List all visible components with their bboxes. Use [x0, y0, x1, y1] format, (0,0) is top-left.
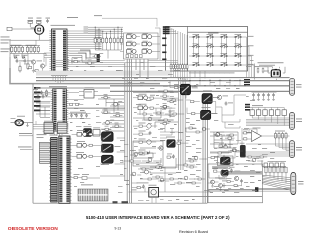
capacitor C41: [85, 60, 94, 65]
wire bundle U6 lower right: [69, 51, 90, 64]
resistor R50-a: [274, 132, 276, 140]
wire bus line 5: [36, 87, 110, 89]
transistor Q8: [147, 140, 151, 144]
capacitor C52: [160, 103, 169, 108]
gate U22a: [77, 132, 87, 136]
resistor R8: [35, 70, 38, 72]
wire thick bus down-left: [10, 68, 160, 84]
wire verticals right matrix to bus: [247, 37, 255, 78]
switch S3: [220, 34, 228, 38]
resistor RN1-c: [102, 37, 104, 45]
capacitor C42: [93, 53, 104, 58]
resistor R50-b: [278, 132, 280, 140]
resistor R102: [101, 109, 110, 114]
resistor group R50 label: [275, 130, 285, 133]
wire RP5 stems: [246, 108, 284, 126]
resistor R100: [234, 185, 237, 187]
resistor R14: [76, 104, 79, 106]
net stub labels: [84, 26, 89, 29]
net label box E: [162, 38, 166, 40]
wire horizontals U6-to-bus: [52, 61, 178, 67]
opto U14: [180, 81, 197, 95]
transistor Q10: [211, 180, 215, 184]
switch S1: [192, 34, 200, 38]
capacitor C40: [71, 58, 80, 63]
annotation smudges: [74, 58, 274, 191]
capacitor C56: [143, 169, 154, 174]
connector P4: [291, 172, 296, 194]
wire scatter links: [122, 91, 267, 183]
dark IC K3: [101, 155, 113, 165]
scattered parts: [130, 90, 263, 184]
capacitor C54: [160, 120, 169, 125]
resistor R105: [112, 123, 121, 128]
capacitor C34: [240, 179, 243, 183]
label right of comb: [131, 189, 137, 192]
wire bus line 3: [110, 85, 290, 87]
diode D2: [22, 55, 28, 59]
resistor R70: [174, 84, 179, 89]
wire bottom frame line: [33, 202, 207, 204]
wire bundle to P4: [255, 173, 292, 191]
crystal Y1 boxed: [149, 185, 159, 197]
resistor R13: [70, 104, 73, 106]
resistor RN1-d: [106, 37, 108, 45]
IC U7: [51, 89, 69, 132]
wire left frame vertical: [32, 84, 34, 203]
wire mesh left gap: [36, 103, 50, 118]
capacitor C32: [142, 184, 145, 188]
resistor pack RP5: [250, 110, 286, 116]
keypad inner frame: [188, 27, 248, 72]
capacitor C3: [24, 59, 32, 63]
wire mesh right-center: [210, 132, 238, 152]
resistor row in block: [126, 55, 142, 58]
wire mesh center-left: [98, 96, 124, 132]
gate U18a: [138, 94, 148, 100]
gate row2: [72, 141, 102, 147]
resistor R7: [29, 67, 32, 69]
wire R50 drops: [240, 136, 290, 156]
diode D1: [14, 55, 20, 59]
IC U8 small box right of U7: [79, 87, 98, 98]
wire opto links: [170, 81, 246, 115]
gate U11e: [127, 48, 137, 53]
wire buzzer to bus: [10, 23, 51, 68]
connector J2 ribbon: [37, 134, 51, 163]
resistor R71: [191, 101, 194, 103]
capacitor C9: [40, 90, 43, 94]
capacitor bank below bus: [252, 92, 277, 97]
svg-text:9-13: 9-13: [115, 227, 122, 231]
resistor R92: [89, 155, 92, 157]
net label box B: [163, 28, 170, 30]
resistor RN1-h: [120, 37, 122, 45]
wire right vertical bus: [203, 96, 207, 203]
dark IC K2: [102, 144, 121, 153]
lower-right box boundary: [208, 164, 263, 203]
net label SHT2: [19, 133, 33, 136]
terminal block TB1: [7, 27, 34, 30]
resistor R5: [24, 62, 29, 70]
transistor Q12: [202, 127, 206, 131]
resistor RN1-e: [109, 37, 111, 45]
connector P1: [290, 78, 302, 95]
diode D5: [147, 151, 150, 155]
resistor RP1-c: [18, 46, 20, 54]
resistor pack RP1 labels: [11, 44, 22, 47]
resistor R2: [36, 18, 42, 24]
resistor R98: [213, 168, 218, 173]
resistor pack RP5 label: [252, 104, 263, 107]
node labels left margin: [1, 36, 10, 39]
connector P3: [290, 141, 303, 158]
resistor R80: [139, 125, 142, 127]
net label column left: [34, 87, 51, 111]
resistor R50-d: [285, 132, 287, 140]
svg-text:5100-410 USER INTERFACE BOARD: 5100-410 USER INTERFACE BOARD VER A SCHE…: [86, 215, 230, 220]
resistor RP2-d: [37, 46, 39, 54]
resistor R45: [243, 129, 248, 134]
wire center mesh2: [133, 98, 178, 120]
node labels right of U6: [96, 30, 102, 49]
resistor R113: [230, 147, 239, 152]
connector J5 DIN jack: [264, 69, 281, 78]
resistor RP2-c: [34, 46, 36, 54]
net label box A: [163, 26, 170, 28]
op-amp U12: [247, 128, 267, 142]
resistor R90: [89, 133, 92, 135]
switch S5: [192, 44, 200, 48]
switch S4: [234, 34, 242, 38]
ground in box: [222, 183, 225, 187]
wire bus to P2: [246, 118, 290, 126]
bottom cluster parts: [132, 183, 149, 189]
resistor R106: [102, 126, 111, 131]
resistor R6: [19, 65, 21, 73]
wire cluster: [185, 128, 210, 132]
transistor Q5: [217, 95, 228, 99]
resistor RN1-g: [117, 37, 119, 45]
switch S6: [206, 44, 214, 48]
label external keyboard: [258, 61, 284, 64]
connector J6 small dark: [240, 143, 246, 157]
driver block U11 boundary: [124, 33, 159, 59]
capacitor C20: [225, 101, 233, 105]
dark component U17: [166, 137, 175, 148]
resistor RP1-b: [14, 46, 16, 54]
wire central vertical bus: [125, 59, 148, 203]
switch S14: [206, 62, 214, 66]
opto U16: [201, 107, 218, 120]
wire U6 right outputs: [69, 31, 95, 49]
ground pair: [211, 184, 222, 191]
resistor R120: [189, 127, 192, 129]
resistor R50-c: [281, 132, 283, 140]
gate U22b: [77, 143, 87, 147]
small round component X2: [11, 116, 34, 126]
gate U11a: [127, 33, 137, 38]
connector J3 striped: [49, 135, 58, 202]
wire mesh center: [133, 93, 178, 174]
ground row: [252, 97, 275, 100]
resistor R110: [214, 132, 225, 137]
gate U11c: [127, 41, 137, 46]
label above top-center: [67, 16, 78, 19]
label P4: [298, 180, 304, 183]
resistor R78: [150, 107, 153, 109]
capacitor C2: [16, 59, 24, 63]
resistor R46: [244, 138, 247, 140]
resistor R121: [196, 131, 199, 133]
transistor Q7: [147, 124, 151, 128]
wire dark ic links: [100, 138, 125, 176]
resistor RN1-f: [113, 37, 115, 45]
solder pads bottom: [113, 201, 118, 203]
transistor Q2: [40, 64, 44, 68]
resistor RN1-a: [94, 37, 96, 45]
resistor R101: [112, 101, 123, 106]
IC U20 small dip: [43, 121, 55, 134]
wire mesh topleft: [10, 40, 46, 71]
wire between-IC links: [33, 91, 51, 121]
wire bus line 4: [110, 90, 290, 92]
wire bus line 2: [36, 80, 290, 82]
wire bus line 1: [36, 77, 290, 79]
IC U7 label: [49, 86, 67, 87]
capacitor C1: [46, 18, 51, 23]
resistor R1: [28, 18, 34, 24]
buzzer LS1: [31, 25, 44, 34]
small circuit row C: [133, 139, 156, 145]
resistor RP2-a: [26, 46, 28, 54]
resistor R82: [139, 141, 142, 143]
resistor row R60: [264, 163, 284, 168]
capacitor C53: [169, 109, 175, 117]
wire gates mesh: [120, 28, 160, 60]
IC U21 small dip: [56, 121, 68, 134]
wire ic row feeds: [33, 121, 43, 129]
gate row1 right of connectors: [72, 130, 102, 136]
capacitor C22: [149, 131, 152, 135]
net label SHT3: [18, 147, 33, 150]
resistor R85: [211, 157, 214, 159]
small circuit row B: [133, 131, 151, 136]
wire mid vertical bus: [179, 77, 186, 170]
capacitor C31: [42, 94, 45, 98]
connector J7 comb: [78, 184, 108, 201]
transistor Q9: [234, 176, 238, 180]
switch S15: [220, 62, 228, 66]
wire U7 bottom fan: [55, 93, 85, 136]
connector P2: [290, 112, 303, 129]
wire band to fan: [228, 171, 262, 175]
resistor R40: [255, 66, 260, 73]
keypad label KB1: [208, 32, 219, 35]
wire resistor bus: [10, 46, 46, 56]
label plate: [213, 167, 231, 169]
resistor R9: [45, 89, 47, 97]
switch S2: [206, 34, 214, 38]
small circuit row D: [133, 150, 156, 155]
wire feedback: [242, 128, 257, 145]
mid cluster around opto U19: [208, 152, 240, 166]
resistor R97: [137, 187, 140, 189]
resistor R104: [104, 120, 115, 125]
wire box mesh: [209, 172, 242, 186]
small parts inside box: [215, 171, 240, 181]
transistor Q1: [31, 60, 42, 64]
capacitor C10 row: [69, 112, 91, 119]
wire U6 left stubs to bus: [44, 53, 66, 84]
resistor RN1-b: [98, 37, 100, 45]
switch S11: [220, 53, 228, 57]
resistor R83: [139, 152, 142, 154]
resistor RP2-b: [30, 46, 32, 54]
annotation smudges 2: [70, 66, 275, 201]
capacitor C51: [167, 98, 176, 103]
cluster near opto3: [185, 127, 210, 133]
wire bundle matrix drops: [190, 77, 240, 86]
gate U18b: [138, 104, 148, 110]
IC U10 box: [93, 128, 100, 137]
resistor R95 row: [71, 174, 100, 180]
wire matrix rows: [189, 34, 254, 65]
resistor R41: [262, 67, 264, 73]
capacitor C30: [35, 94, 40, 99]
switch S13: [192, 62, 200, 66]
dark IC K1: [101, 129, 113, 142]
capacitor C50: [160, 93, 169, 98]
resistor R91: [89, 144, 92, 146]
net label box F: [162, 45, 166, 47]
net label box H: [162, 59, 166, 61]
resistor R75: [177, 140, 182, 144]
wide light bus band: [36, 71, 170, 76]
IC U9 dark in socket: [84, 126, 92, 136]
wire jack leads: [255, 64, 286, 81]
IC U6 label: [51, 24, 76, 27]
svg-text:OBSOLETE VERSION: OBSOLETE VERSION: [8, 226, 58, 232]
resistor R100: [101, 94, 110, 99]
net label boxes right B: [245, 104, 250, 111]
switch S7: [220, 44, 228, 48]
connector J4 striped: [59, 133, 72, 203]
resistor R81: [139, 133, 142, 135]
row exit labels: [248, 36, 254, 65]
small circuit row A: [133, 123, 157, 129]
net label box D: [163, 33, 170, 35]
capacitor C57: [167, 154, 175, 159]
switch S12: [234, 53, 242, 57]
resistor ladder RN9: [262, 160, 287, 173]
resistor R99: [227, 178, 232, 182]
switch labels: [193, 34, 240, 63]
junction dots: [95, 27, 122, 34]
resistor R114: [223, 155, 229, 163]
wire matrix bottom drops: [171, 69, 205, 81]
switch S8: [234, 44, 242, 48]
wire bus line mid: [66, 107, 125, 109]
resistor R103: [113, 112, 122, 117]
resistor R111: [225, 135, 234, 140]
wire bottom mesh: [129, 167, 211, 192]
keypad boundary box: [166, 27, 248, 72]
switch S16: [234, 62, 242, 66]
resistor R77: [150, 95, 155, 99]
resistor fan row labels: [268, 160, 287, 163]
capacitor C33: [230, 167, 235, 173]
wire right area links: [222, 115, 240, 128]
wire steps left: [78, 50, 97, 62]
capacitor C55: [155, 164, 164, 169]
switch S9: [192, 53, 200, 57]
junction block: [255, 187, 258, 192]
vertical drops into bottom line: [152, 96, 203, 203]
wire center mesh1: [157, 124, 188, 148]
capacitor C8 between ICs: [33, 89, 38, 95]
sub-circuit box center-left: [133, 141, 163, 166]
resistor RP1-d: [22, 46, 24, 54]
opto U15: [202, 90, 219, 103]
resistor RN2 row: [170, 63, 188, 69]
IC U6: [49, 29, 69, 76]
wire matrix column feeds: [170, 27, 188, 65]
resistor R72: [192, 113, 195, 115]
svg-text:Revision 6 Board: Revision 6 Board: [179, 230, 208, 234]
junction row: [189, 80, 245, 86]
gate U11f: [142, 48, 152, 53]
resistor RP1-a: [11, 46, 13, 54]
resistor R112: [219, 143, 227, 148]
dark component U25: [221, 169, 229, 177]
gate U22c: [77, 154, 87, 158]
ground: [32, 69, 35, 73]
net label box G: [162, 52, 166, 54]
transistor Q6: [159, 146, 163, 150]
gate U11d: [142, 41, 152, 46]
wire bus above resistor row: [88, 27, 123, 38]
wire resistor drops: [95, 44, 121, 58]
gate U11b: [142, 33, 152, 38]
transistor Q11: [219, 184, 223, 188]
net label boxes right A: [244, 79, 250, 86]
switch S10: [206, 53, 214, 57]
connector stub dark: [97, 54, 100, 62]
wire bottom line 2: [158, 196, 262, 198]
net label box C: [163, 30, 170, 32]
gate row3: [72, 152, 102, 158]
resistor labels below matrix: [189, 72, 235, 75]
opto U19: [221, 157, 231, 164]
